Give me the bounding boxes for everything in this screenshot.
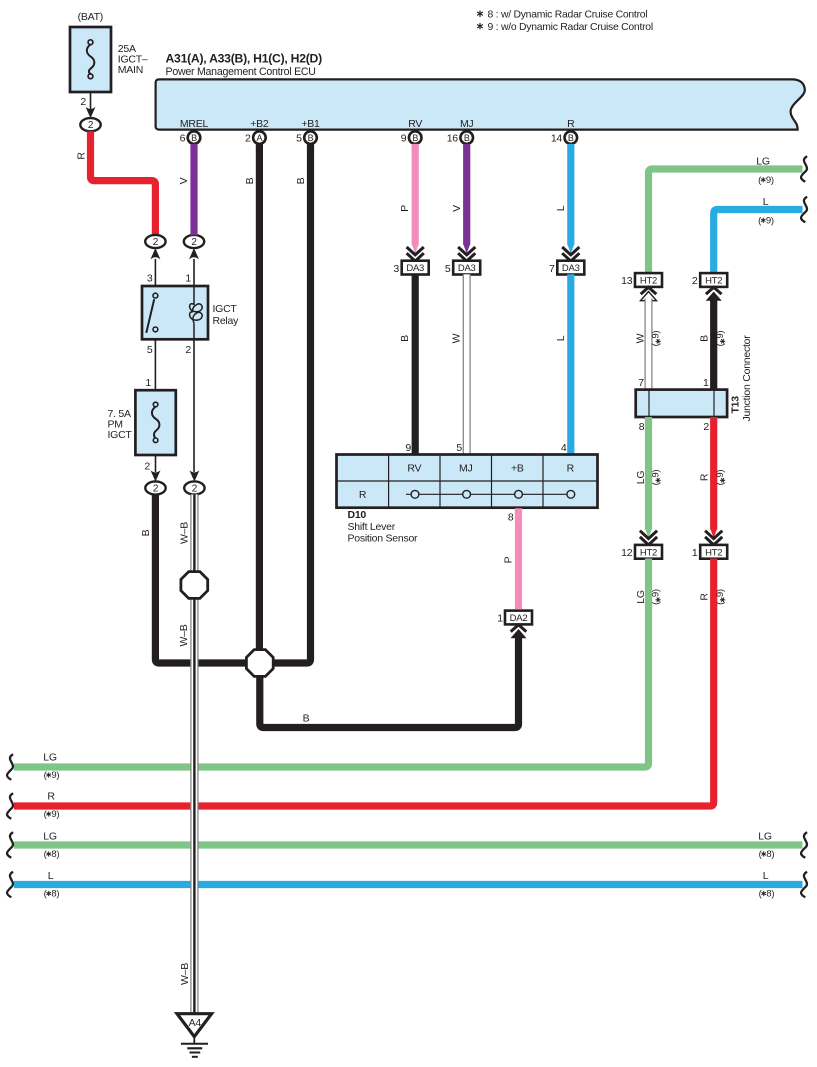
svg-text:R: R [47,791,55,803]
D10 contact circle RV [411,490,419,498]
svg-text:2: 2 [245,132,251,144]
ECU pin 5(B) +B1 [296,131,317,144]
fuse value label 25A IGCT-MAIN [118,43,148,76]
svg-text:( 9): ( 9) [715,470,726,486]
note: *9 w/o Dynamic Radar Cruise Control [477,22,653,33]
wire W white HT2-13 to T13-7 [645,299,652,390]
svg-text:( 8): ( 8) [759,889,775,900]
wire label V [178,177,190,184]
svg-text:W–B: W–B [178,624,190,646]
wire relay pin2 down w/ arrow [189,339,199,481]
connector (2) to relay pin 1 [184,235,204,248]
ECU pin 14(B) R [551,131,577,144]
connector 2 HT2 [692,273,727,287]
svg-text:( 9): ( 9) [715,589,726,605]
svg-text:( 8): ( 8) [44,849,60,860]
wire B to DA2 [260,636,519,728]
svg-text:LG: LG [43,831,57,843]
svg-text:2: 2 [703,421,709,433]
svg-text:LG: LG [758,831,772,843]
chevron into HT2-12 [645,528,652,538]
torn end LG top [801,156,807,182]
svg-text:5: 5 [296,132,302,144]
wire +B2 B black [256,144,263,651]
wire label LG (lower) [635,590,647,604]
wire label L [555,205,567,211]
chevron into DA3 pin7 [567,244,574,254]
wire R red T13-2 down [710,417,717,530]
chevron into DA3 pin5 [463,244,470,254]
torn end L *8 right [801,872,807,898]
torn end L *8 left [7,872,13,898]
svg-text:W–B: W–B [179,963,191,985]
svg-text:2: 2 [153,484,159,495]
splice octagon on W-B [181,572,208,599]
connector (2) W-B side [184,481,204,494]
wire label (＊9) top LG [758,175,774,186]
svg-text:8: 8 [508,512,514,524]
svg-text:L: L [763,196,769,208]
wire fuse to connector [90,92,92,109]
wire relay pin5 to fuse [154,339,156,390]
torn end R *9 left [7,793,13,819]
wire label L (DA3) [555,335,567,341]
relay switch contact [146,293,158,333]
torn end L top [801,197,807,223]
svg-text:1: 1 [185,273,191,285]
wire label LG *8 left [43,831,59,861]
svg-text:HT2: HT2 [705,547,722,558]
svg-text:( 9): ( 9) [651,470,662,486]
svg-text:9: 9 [401,132,407,144]
wire label W-B (lower) [179,963,191,985]
svg-text:W: W [451,333,463,343]
wire label V (MJ) [451,205,463,212]
svg-text:P: P [399,205,411,212]
svg-text:2: 2 [80,96,86,108]
svg-text:HT2: HT2 [705,276,722,287]
svg-text:( 9): ( 9) [758,175,774,186]
fuse 7.5A PM IGCT box [135,390,175,455]
connector (2) to relay pin 3 [145,235,165,248]
svg-text:+B2: +B2 [250,118,269,130]
svg-text:DA2: DA2 [510,613,528,624]
svg-text:B: B [699,335,711,342]
ground stub [193,1037,195,1044]
relay IGCT box [142,286,208,339]
svg-text:1: 1 [497,613,503,625]
svg-text:MAIN: MAIN [118,64,143,76]
ECU box: Power Management Control ECU [156,79,805,129]
svg-text:2: 2 [88,120,94,131]
wire label B (left) [140,529,152,536]
wire label R [76,152,88,160]
wire relay pin1 up w/ arrow [189,248,199,286]
svg-text:LG: LG [43,752,57,764]
svg-text:2: 2 [153,237,159,248]
svg-text:MJ: MJ [459,462,473,474]
wire label LG (below T13) [635,471,647,485]
svg-text:16: 16 [447,132,459,144]
svg-text:B: B [140,529,152,536]
wire LG green top right [649,169,803,273]
svg-text:1: 1 [145,377,151,389]
svg-text:R: R [567,118,575,130]
torn end LG *9 left [7,754,13,780]
note: *8 w/ Dynamic Radar Cruise Control [477,10,647,21]
wire label W-B (top, below connector) [179,522,191,544]
svg-text:B: B [295,177,307,184]
relay coil [190,286,203,339]
connector (2) below fuse [145,481,165,494]
svg-text:( 9): ( 9) [44,770,60,781]
svg-text:DA3: DA3 [406,263,424,274]
svg-text:B: B [303,713,310,725]
svg-text:( 9): ( 9) [651,589,662,605]
svg-text:MREL: MREL [180,118,209,130]
svg-text:13: 13 [621,275,633,287]
svg-text:RV: RV [408,118,422,130]
ECU pin 9(B) RV [401,131,422,144]
wire L blue top right [714,210,803,273]
connector 1 DA2 [497,611,532,625]
wire R L blue [567,144,574,245]
svg-text:LG: LG [756,155,770,167]
splice octagon black junction [246,650,273,677]
wire W-B white-black vertical [191,494,198,1013]
wire label B (+B2) [244,177,256,184]
svg-text:+B1: +B1 [301,118,320,130]
svg-text:Position Sensor: Position Sensor [348,532,419,544]
wire relay pin3 up w/ arrow [150,248,160,286]
svg-text:7: 7 [638,377,644,389]
wire MJ V violet [463,144,470,245]
wire label W (HT2) [635,333,647,343]
D10 contact circle MJ [463,490,471,498]
svg-text:Power Management Control ECU: Power Management Control ECU [166,66,316,78]
svg-text:1: 1 [692,547,698,559]
fuse value label 7.5A PM IGCT [108,408,133,441]
svg-text:A31(A), A33(B), H1(C), H2(D): A31(A), A33(B), H1(C), H2(D) [166,52,323,66]
svg-text:A: A [257,133,263,143]
wire label L *8 right [759,870,775,900]
svg-text:L: L [555,335,567,341]
wire label (＊9) W [651,331,662,347]
wire fuse pin2 down w/ arrow [151,455,161,482]
svg-text:3: 3 [393,263,399,275]
svg-text:DA3: DA3 [458,263,476,274]
wire label R (lower) [699,593,711,601]
svg-text:6: 6 [180,132,186,144]
svg-text:R: R [699,473,711,481]
svg-text:7: 7 [549,263,555,275]
wire B black DA3-3 to D10-9 [412,274,419,454]
svg-text:2: 2 [191,237,197,248]
svg-text:IGCT: IGCT [213,303,238,315]
connector 13 HT2 [621,273,662,287]
wire label P (DA2) [503,556,515,563]
wire label B (DA3) [399,335,411,342]
wire label W-B (upper) [178,624,190,646]
wire label (＊9) R [715,470,726,486]
svg-text:( 8): ( 8) [759,849,775,860]
chevron into DA2 [511,625,527,639]
svg-text:B: B [308,133,314,143]
wire label P [399,205,411,212]
svg-text:R: R [359,489,367,501]
wire label R (below T13) [699,473,711,481]
svg-text:L: L [48,870,54,882]
svg-text:B: B [464,133,470,143]
svg-text:P: P [503,556,515,563]
svg-text:L: L [763,870,769,882]
wire R red HT2-1 down to horizontal [14,559,714,807]
svg-text:LG: LG [635,590,647,604]
svg-text:1: 1 [703,377,709,389]
svg-text:+B: +B [511,462,524,474]
wire label (＊9) B [715,331,726,347]
wire +B1 B black [274,144,311,663]
svg-text:( 9): ( 9) [758,216,774,227]
svg-text:B: B [191,133,197,143]
wire RV P pink [412,144,419,245]
chevron into DA3 pin3 [412,244,419,254]
wire B from left connector [155,494,247,663]
svg-text:8 : w/ Dynamic Radar Cruise Co: 8 : w/ Dynamic Radar Cruise Control [488,10,648,21]
wire P pink D10-8 to DA2 [515,508,522,609]
svg-text:HT2: HT2 [640,276,657,287]
svg-text:2: 2 [692,275,698,287]
svg-text:A4: A4 [189,1017,202,1029]
svg-text:5: 5 [456,442,462,454]
connector 12 HT2 [621,545,662,559]
wire LG green T13-8 down [645,417,652,530]
wire label L *8 left [44,870,60,900]
svg-text:( 9): ( 9) [44,809,60,820]
svg-text:2: 2 [185,344,191,356]
D10 internal contact line [406,493,571,495]
svg-text:B: B [412,133,418,143]
chevron up below HT2-13 [641,287,657,301]
svg-text:8: 8 [639,421,645,433]
svg-text:9: 9 [405,442,411,454]
ECU pin 2(A) +B2 [245,131,266,144]
svg-text:3: 3 [147,273,153,285]
connector 5 DA3 [445,261,480,275]
wire label (＊9) LG [651,470,662,486]
svg-text:(BAT): (BAT) [78,11,103,23]
svg-text:( 9): ( 9) [715,331,726,347]
svg-text:RV: RV [407,462,421,474]
chevron into HT2-1 [710,528,717,538]
svg-text:4: 4 [561,442,567,454]
svg-text:LG: LG [635,471,647,485]
wire label R *9 left [44,791,60,821]
torn end LG *8 left [7,832,13,858]
svg-text:V: V [451,205,463,212]
wire label (＊9) LG lower [651,589,662,605]
svg-text:14: 14 [551,132,563,144]
svg-text:5: 5 [147,344,153,356]
torn end LG *8 right [801,832,807,858]
D10 contact circle +B [515,490,523,498]
svg-text:B: B [244,177,256,184]
svg-text:R: R [567,462,575,474]
wire LG green *8 horizontal [14,841,803,848]
svg-text:HT2: HT2 [640,547,657,558]
wire B black HT2-2 to T13-1 [710,299,717,390]
svg-text:Shift Lever: Shift Lever [348,521,396,533]
wire label (＊9) top L [758,216,774,227]
svg-text:MJ: MJ [460,118,474,130]
wire R red [91,131,156,235]
svg-text:R: R [76,152,88,160]
svg-text:W: W [635,333,647,343]
svg-text:2: 2 [144,461,150,473]
svg-text:9 : w/o Dynamic Radar Cruise C: 9 : w/o Dynamic Radar Cruise Control [488,22,653,33]
wire label B (+B1) [295,177,307,184]
svg-text:T13: T13 [730,396,742,414]
relay label IGCT Relay [213,303,240,327]
wire label LG *8 right [758,831,774,861]
ground A4 triangle [177,1014,212,1037]
wire L blue DA3-7 to D10-4 [567,274,574,454]
arrow into connector [86,107,96,118]
svg-text:IGCT: IGCT [108,429,133,441]
ECU pin 6(B) MREL [180,131,201,144]
wire label W (DA3) [451,333,463,343]
wire label LG *9 left [43,752,59,782]
T13 Junction Connector box [636,390,727,417]
svg-text:B: B [568,133,574,143]
svg-text:5: 5 [445,263,451,275]
svg-text:V: V [178,177,190,184]
wire label (＊9) R lower [715,589,726,605]
svg-text:( 9): ( 9) [651,331,662,347]
svg-text:Relay: Relay [213,315,240,327]
svg-text:D10: D10 [348,509,367,521]
svg-text:12: 12 [621,547,633,559]
wire L blue *8 horizontal [14,881,803,888]
D10 caption [348,509,419,545]
svg-text:W–B: W–B [179,522,191,544]
wire W white DA3-5 to D10-5 [463,274,470,454]
connector (2) battery side [80,118,100,131]
connector 7 DA3 [549,261,584,275]
D10 Shift Lever Position Sensor table [337,455,598,508]
svg-text:R: R [699,593,711,601]
wire label B (HT2) [699,335,711,342]
T13 label rotated [730,396,742,414]
svg-text:L: L [555,205,567,211]
svg-text:B: B [399,335,411,342]
connector 1 HT2 [692,545,727,559]
connector 3 DA3 [393,261,428,275]
wire LG green HT2-12 down to horizontal [14,559,649,768]
ECU pin 16(B) MJ [447,131,473,144]
svg-text:DA3: DA3 [562,263,580,274]
svg-text:Junction Connector: Junction Connector [741,335,753,422]
D10 contact circle R [567,490,575,498]
svg-text:( 8): ( 8) [44,889,60,900]
ground bars [181,1044,208,1057]
svg-text:2: 2 [192,484,198,495]
chevron up below HT2-2 [706,287,722,301]
fuse 25A IGCT-MAIN box [70,27,111,92]
wire MREL V violet [190,144,197,235]
